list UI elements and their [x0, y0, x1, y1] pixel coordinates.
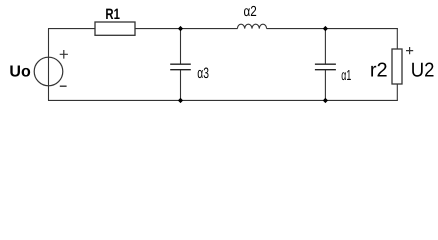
svg-text:α1: α1: [341, 68, 351, 84]
svg-text:α2: α2: [244, 4, 257, 20]
svg-text:U2: U2: [411, 59, 435, 81]
svg-text:r2: r2: [370, 59, 388, 81]
svg-text:Uo: Uo: [9, 63, 31, 80]
svg-text:R1: R1: [105, 6, 120, 23]
svg-text:α3: α3: [197, 65, 209, 82]
